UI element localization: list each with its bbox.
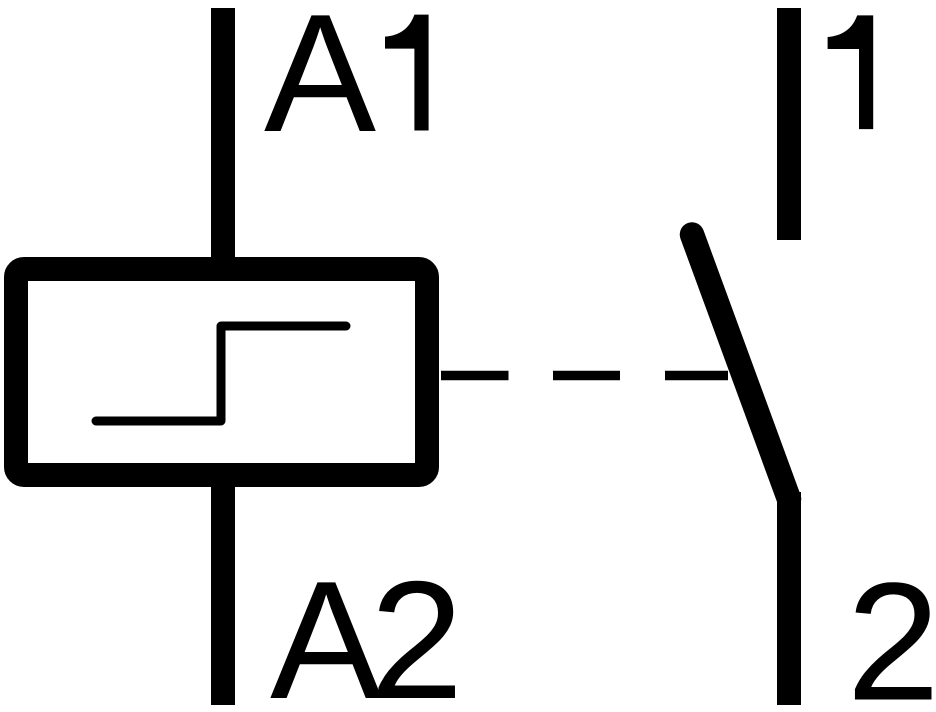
- wire terminal 2 lead: [777, 492, 801, 705]
- svg-text:2: 2: [847, 548, 936, 712]
- terminal label A2: [270, 546, 463, 712]
- terminal label A1: [264, 0, 429, 167]
- wire A2 lead: [211, 475, 235, 705]
- coil K1 (electromechanical latching coil with step symbol): [16, 269, 427, 475]
- wire terminal 1 lead: [777, 8, 801, 240]
- svg-text:A: A: [270, 546, 382, 712]
- switch contact blade (NO contact): [692, 235, 789, 500]
- wire A1 lead: [211, 8, 235, 270]
- dashed mechanical link: [441, 371, 728, 381]
- terminal label 1: [828, 15, 874, 129]
- step symbol inside coil: [96, 326, 346, 421]
- svg-text:A: A: [264, 0, 376, 167]
- svg-text:2: 2: [370, 546, 463, 712]
